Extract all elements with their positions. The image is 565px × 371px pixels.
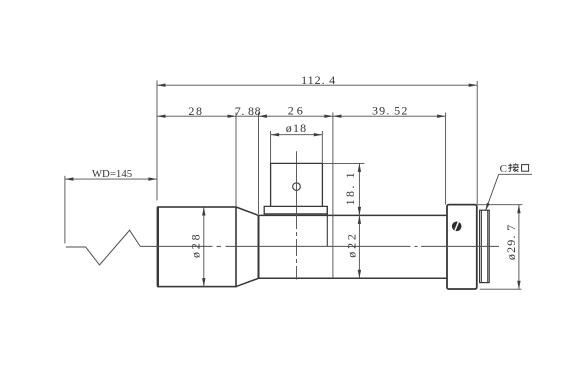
WD arrows [65, 177, 74, 180]
svg-text:7. 88: 7. 88 [235, 104, 261, 118]
ext line 28/7.88 boundary [235, 113, 237, 207]
ext line phi29.7 top [478, 204, 523, 206]
dim line 18.1 / phi22 vertical [358, 163, 360, 278]
phi22 barrel top edge [259, 214, 447, 216]
svg-text:ø22: ø22 [345, 231, 359, 257]
svg-text:ø29. 7: ø29. 7 [504, 223, 518, 260]
dim line 112.4 [157, 84, 477, 86]
dim line phi18 [271, 134, 323, 136]
top block centerline [296, 151, 298, 212]
taper cone top edge [236, 207, 259, 215]
112.4 arrows [157, 84, 166, 87]
svg-text:112. 4: 112. 4 [301, 73, 336, 87]
svg-text:26: 26 [288, 104, 306, 118]
ext line 26/39.52 boundary [332, 113, 334, 279]
svg-text:28: 28 [188, 104, 203, 118]
phi22 barrel bottom edge [259, 277, 447, 279]
dim line phi28 vertical [203, 207, 205, 287]
ext line phi29.7 bottom [480, 288, 522, 290]
phi18 top block [271, 163, 323, 206]
svg-text:ø18: ø18 [286, 121, 308, 135]
ext line 7.88/26 boundary [258, 113, 260, 215]
dim line WD=145 [65, 178, 157, 180]
ext line 39.52 right [445, 113, 447, 205]
hanzi KOU (口) drawn as strokes [522, 165, 529, 172]
phi28 arrows [202, 207, 205, 216]
ext line 112.4 right [476, 81, 478, 205]
main optical centerline [140, 245, 212, 247]
svg-text:WD=145: WD=145 [92, 168, 132, 180]
set screw [452, 222, 462, 232]
chained row arrows [157, 115, 166, 118]
phi29.7 arrows [517, 205, 520, 214]
leader C-mount [486, 174, 499, 210]
C-mount ring [480, 210, 490, 282]
dim line row 28/7.88/26/39.52 [157, 115, 446, 117]
dim line phi29.7 vertical [518, 205, 520, 290]
svg-text:39. 52: 39. 52 [372, 103, 409, 117]
svg-text:ø28: ø28 [189, 232, 203, 258]
taper cone bottom edge [236, 278, 259, 286]
phi22 arrows [358, 215, 361, 224]
leader arrow [486, 203, 490, 211]
index hole on block [293, 183, 301, 191]
top flange saddle [264, 206, 327, 214]
taper end edge [258, 215, 260, 278]
barrel seam [326, 206, 328, 246]
ext line WD left [64, 176, 66, 244]
phi18 arrows [271, 133, 280, 136]
object plane break symbol [66, 230, 140, 265]
svg-text:18. 1: 18. 1 [343, 170, 357, 205]
ext line 18.1 top [322, 162, 364, 164]
front barrel phi28 cylinder [158, 207, 236, 287]
ext line left at part front [156, 81, 158, 201]
18.1 arrows [358, 163, 361, 172]
ext lines phi18 [270, 131, 272, 163]
hanzi JIE (接) drawn as strokes [508, 163, 519, 171]
svg-text:C: C [500, 163, 507, 175]
rear mount block [447, 205, 477, 289]
